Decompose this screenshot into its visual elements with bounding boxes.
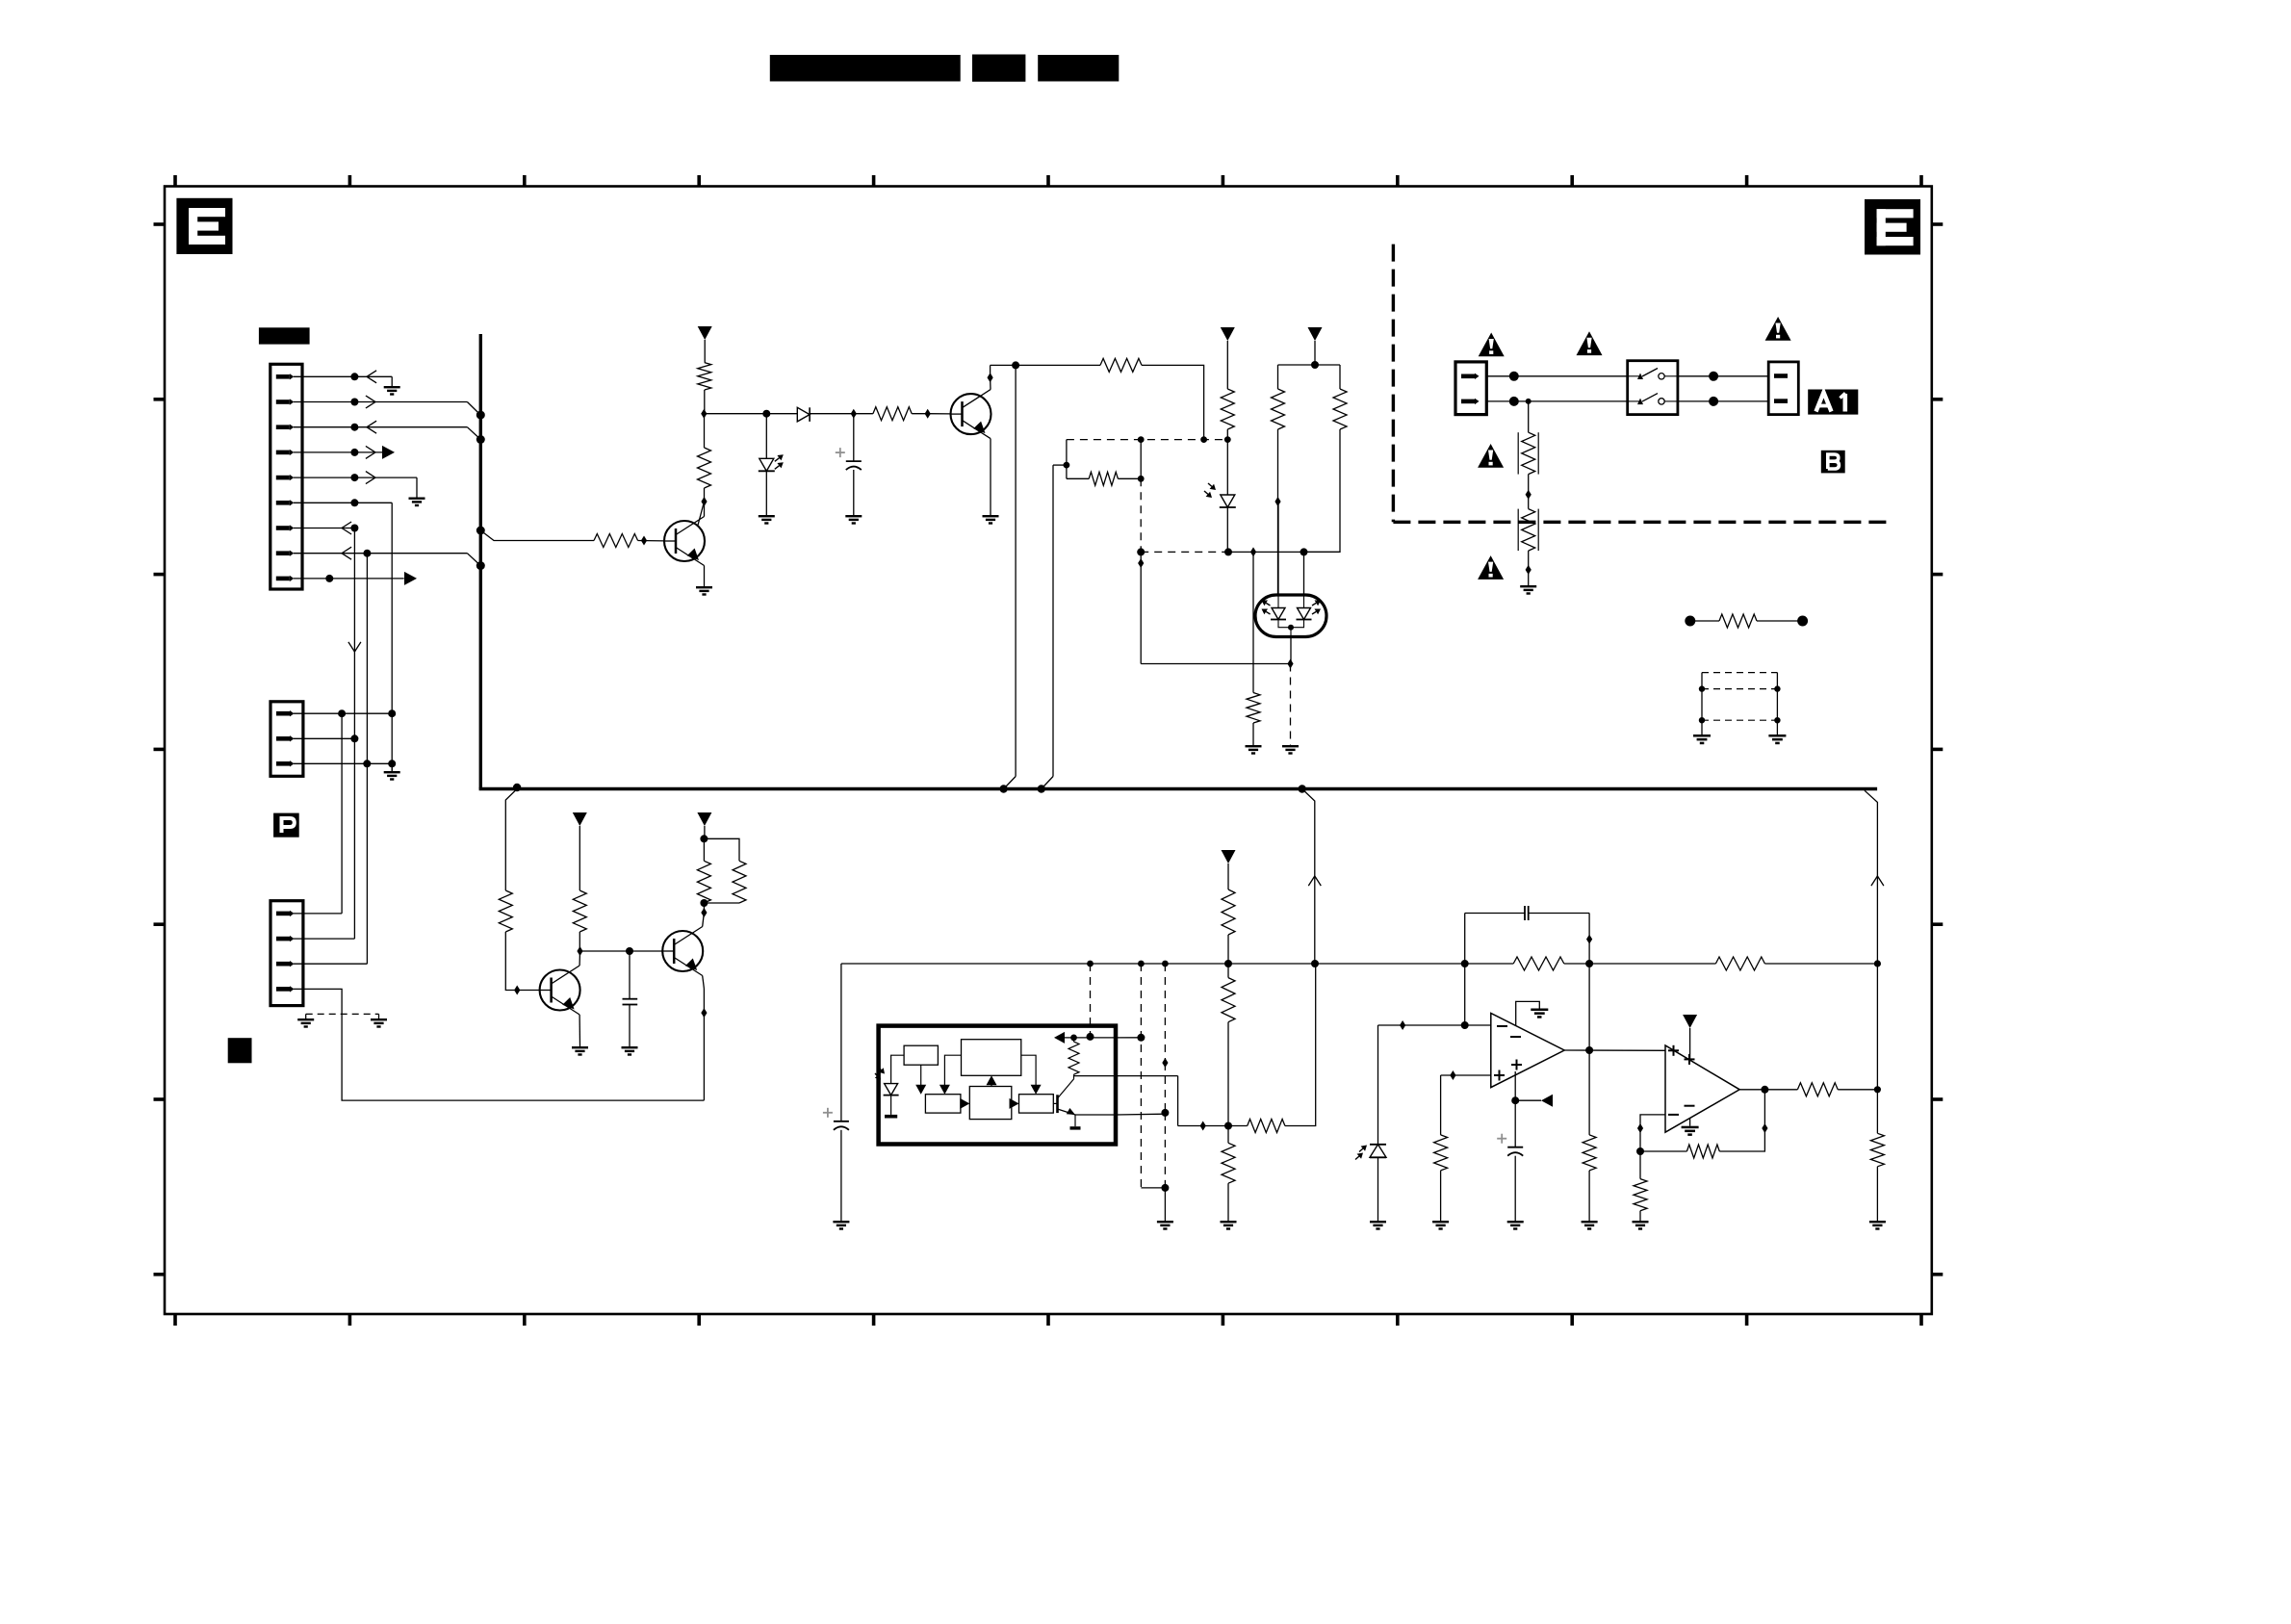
wire RT2-gnd [1528,551,1530,585]
U3A power stub [1516,1001,1540,1025]
U3B minus signs [1685,1105,1695,1107]
ground G-D7 [1370,1221,1386,1230]
node RN2 [1797,616,1808,627]
border frame [165,187,1932,1315]
node N2 [1012,361,1019,369]
supply arrow V7 [1683,1015,1697,1028]
wire D7-opto [1277,502,1279,595]
wire R23-gnd [1588,1171,1590,1221]
resistor R24 [1686,1145,1719,1158]
node N11 [1461,1021,1469,1029]
capacitor C2 [623,999,638,1005]
junction D15 [577,946,582,956]
arrow out (pin4) [366,446,375,458]
wire R11-Q2 [638,540,664,542]
U2 common lead [1278,620,1304,628]
node N17 [1761,1086,1768,1094]
resistor R17 [1222,978,1235,1022]
wire V3 stem [1314,341,1316,365]
wire U1 out3 [1074,1075,1178,1077]
capacitor C4 [1497,1134,1523,1156]
U1 res wires [1073,1038,1075,1042]
wire M2 down [1528,401,1530,432]
node J1 pin1 [350,373,358,380]
bus node B2 [1038,785,1045,792]
supply arrow V6 [1222,850,1236,864]
node N12 [1461,960,1469,967]
junction D13 [641,536,647,546]
node N13 [1585,960,1593,967]
warning triangle W5 [1478,555,1504,580]
node N5 [626,947,633,955]
wire V6 stem [1227,864,1229,889]
wire D6 bottom [1226,507,1228,552]
junction D7 [1274,497,1280,506]
node N4 [1311,361,1319,369]
switch S1 box [1628,361,1678,415]
dashed X1 drop [1090,964,1092,1037]
rail start corner [841,963,1465,965]
wire J2p1 to J3p1 [341,713,343,914]
wire RN1-R10 [1690,620,1719,622]
wire R22-gnd [1440,1171,1442,1221]
wire bus branch [505,789,517,891]
ground G-RT [1520,585,1536,595]
arrow in (pin3) [367,421,376,433]
resistor R10 [1719,614,1757,628]
junction D11 [1526,490,1532,500]
wire X3c-gnd [1164,1188,1166,1221]
resistor R9 [1247,693,1260,724]
resistor R27 [1870,1133,1884,1167]
wire J1 pin4 [294,451,382,453]
node H2c [1300,548,1308,555]
warning triangle W1 [1479,333,1505,357]
wire J1 pin6 [294,502,392,503]
junction X1 [1087,961,1094,967]
wire N16-R26 [1639,1151,1641,1179]
wire S1-J5 L [1678,375,1768,377]
node J1 pin7 [350,525,358,532]
wire J3 pin1 [294,913,342,915]
wire R16-N8 [1227,935,1229,964]
bus branch node [513,784,521,791]
label A 1 [1808,390,1858,415]
ground G-R9 [1246,745,1262,755]
node X3b [1161,1109,1169,1117]
resistor R3 [873,407,912,421]
IC U1 body [879,1026,1116,1145]
diode D2 [797,407,810,422]
arrow in (pin1) [367,371,376,383]
wire fb rail [1465,913,1525,915]
ground G-C2 [622,1046,638,1056]
photo arrows D6 [1208,483,1212,486]
resistor R7 [1272,389,1285,429]
dashed X3 drop3 [1164,1113,1166,1188]
wire J1 pin8 [294,553,467,554]
flow arrow up1 [1308,876,1321,886]
switch S1 pole A [1628,369,1678,380]
wire H1 left leg [1066,440,1068,479]
wire R24 right [1719,1090,1764,1151]
wire rail2 [1278,364,1341,366]
dashed block top [1702,672,1777,674]
transistor Q3 [540,970,580,1011]
LED D7 (photodiode) [1355,1145,1386,1160]
node J2 pin3 a [363,760,371,767]
isolation barrier vertical [1392,245,1395,523]
U2 pin right wire [1303,552,1305,595]
U1 photodiode [884,1084,899,1096]
node H2a [1137,548,1145,555]
wire R13-D15 [579,932,580,951]
ground G-Q2 [696,586,712,596]
junction D16 [701,908,707,917]
ground GL1 [297,1018,314,1028]
node J1 pin2 [350,399,358,406]
U1 fb wire [1064,1037,1116,1039]
U2 arrows left [1266,603,1270,606]
ground J2 [384,771,400,781]
dashed X3 drop [1164,964,1166,1063]
node J1 pin5 [350,474,358,481]
wire V5 stem [704,826,706,838]
wire R6 bot [1226,429,1228,440]
wire pin8 vertical [366,554,368,965]
wire V1 stem [704,340,706,363]
ground G-X3 [1157,1221,1173,1230]
bus junction pin2 [476,411,485,420]
wire J1 pin7 [294,528,354,529]
junction D1a [701,409,707,419]
isolation barrier horizontal [1393,521,1888,524]
node J2 pin1 a [338,709,346,717]
U2 arrows right [1312,603,1316,606]
wire fb vert [1464,914,1466,1026]
U1 pd wires [891,1055,905,1083]
flow arrow on pin7 wire [348,642,361,652]
junction D9 [1138,558,1144,568]
wire mains N [1486,400,1627,402]
wire J3 pin2 [294,938,354,940]
wire R10-RN2 [1757,620,1803,622]
ground G-D5 [759,515,775,525]
resistor R5 [1089,472,1118,485]
node H2b [1224,548,1232,555]
connector J2 (3-pin) [270,702,303,777]
U1 block B [962,1040,1021,1076]
arrow in (pin8) [342,547,351,559]
resistor R12 [499,890,512,932]
wire N1-D5 [765,414,767,459]
junction D4 [925,409,931,419]
wire R27-gnd [1876,1167,1878,1221]
resistor R25 [1797,1083,1838,1096]
ground G-DB1 [1693,735,1711,744]
resistor R2 [698,448,711,488]
junction X4 [1874,960,1881,967]
wire R17-N10 [1227,1022,1229,1126]
switch S1 pole B [1628,394,1678,405]
resistor R4 [1100,358,1142,372]
wire J1 pin3 [294,426,467,428]
ground G-R18 [1221,1221,1237,1230]
arrow out (pin2) [366,396,375,408]
resistor R6 [1221,389,1234,429]
U1 res internal [1068,1042,1079,1074]
U2 led left [1271,608,1286,620]
node X1b [1087,1033,1094,1041]
arrow out (pin5) [366,472,375,484]
bus tap right node [1299,785,1306,792]
junction D3 [851,409,857,419]
wire N5-C2 [629,951,631,999]
bus node B1 [999,785,1007,792]
ground G-R23 [1582,1221,1598,1230]
resistor R1 [698,363,711,390]
resistor R11 [594,534,638,548]
connector J4 (mains) [1455,362,1486,415]
node J1 pin3 [350,424,358,431]
wire N15 down [1514,1100,1516,1147]
junction D23 [1637,1123,1643,1133]
wire R5 left [1067,477,1089,479]
wire bus tap [480,530,594,541]
node N15 [1511,1096,1519,1104]
resistor R26 [1634,1179,1647,1211]
op-amp U3B [1665,1045,1739,1132]
bus junction pin3 [476,435,485,444]
junction X5 [1874,1086,1881,1093]
wire R5 right [1118,477,1141,479]
ground J1 pin5 [409,498,425,507]
dashed block mid1 [1702,688,1777,690]
node N1 [762,410,770,418]
capacitor C5 [1524,906,1526,920]
ground G-U3A [1531,1009,1548,1018]
resistor R22 [1434,1135,1448,1171]
wire minus in [1378,1024,1491,1026]
wire plus col [1440,1075,1442,1135]
dashed X2 drop [1140,964,1142,1038]
wire C2-gnd [629,1005,631,1047]
wire bottom rail [1141,663,1290,665]
wire Q2 emitter [704,566,706,587]
wire J1 pin9 [294,578,404,580]
U1 D-B arrow [991,1084,992,1087]
junction D10 [1287,659,1293,669]
node J1 pin8 [363,550,371,557]
ground G-U3B [1682,1126,1699,1136]
resistor R14 [697,861,710,903]
wire R6-D6 [1226,440,1228,495]
dashed block left leg [1701,673,1703,735]
dashed X2 drop2 [1140,1044,1142,1188]
wire Q1 emitter down [990,439,991,515]
wire V7 stem [1689,1028,1691,1060]
capacitor C1 (polarized) [836,448,862,470]
node J1 pin6 [350,499,358,506]
wire N10-R18 [1227,1126,1229,1144]
wire N8-R17 [1227,964,1229,978]
U1 C-D arrow [961,1102,963,1104]
U1 A-C arrow [920,1065,922,1085]
U1 D-E arrow [1012,1102,1014,1104]
wire R24 left [1640,1150,1686,1152]
wire J2 pin3 [294,762,392,764]
ground GL2 [371,1018,387,1028]
wire bus to N9 [1302,789,1315,965]
U1 emitter rail [1075,1114,1116,1116]
wire U1 out2 [1116,1113,1165,1116]
junction D5b [988,373,993,382]
dashed link H1 [1067,439,1227,441]
wire rail ext [1564,963,1589,965]
node N16 [1636,1147,1644,1155]
wire cap column [840,964,842,1121]
resistor R16 [1222,889,1235,935]
wire Q3 emitter [579,1015,580,1046]
wire N7-D16 [703,903,705,913]
ground G-C1 [845,515,862,525]
op-amp U3A [1491,1014,1564,1088]
wire J1 pin5 [294,477,417,478]
wire R8 bottom [1304,429,1341,552]
U2 pin left wire [1277,502,1279,595]
junction D22 [1450,1070,1455,1080]
zone label E (right) [1865,199,1920,255]
ground G-DB2 [1768,735,1786,744]
wire J1 pin1 [294,375,392,377]
node M3 [1709,372,1718,381]
wire R7 bottom [1277,429,1279,502]
dashed V2 [1290,664,1292,746]
node N9 [1311,960,1319,967]
connector J5 (A1) [1768,362,1798,415]
label B [1821,451,1845,474]
wire RT1-RT2 [1528,475,1530,509]
wire R20 left [1465,963,1514,965]
transistor Q4 [662,931,703,971]
zone label E (left) [176,198,232,254]
U1 block C [925,1095,961,1113]
title text block 1 [770,55,961,82]
U3B plus signs [1668,1045,1695,1065]
node N14 [1585,1046,1593,1054]
optocoupler U2 body [1255,595,1326,637]
supply arrow V2 [1221,327,1235,341]
wire N14-R23 [1588,1050,1590,1135]
title text block 3 [1038,55,1119,82]
connector designator label (redacted) [259,327,310,344]
node N3 [1064,462,1070,469]
wire mains L [1486,375,1627,377]
wire H1a-R5r [1140,440,1142,479]
wire Q1 collector [698,502,705,526]
ground G-R26 [1633,1221,1649,1230]
LED D5 [759,454,784,471]
node M1 [1509,372,1519,381]
U1 block A [904,1045,938,1065]
junction D1b [701,497,707,506]
wire R8 top [1339,365,1341,389]
U2 top pins [1277,595,1279,608]
dashed X3 drop2 [1164,1063,1166,1113]
dashed block mid2 [1702,719,1777,721]
frame tick marks [173,175,177,187]
U1 block E [1019,1095,1054,1113]
signal arrow (pin4) [382,446,395,459]
wire J2 pin2 [294,737,354,739]
node R5r [1138,476,1145,482]
title text block 2 [972,55,1025,82]
black square marker [228,1038,252,1063]
node N7 [700,899,708,907]
connector J3 (4-pin) [270,901,303,1006]
junction D14 [514,986,520,995]
dashed V1 [1140,478,1142,552]
wire X2-X3 link [1141,1187,1165,1189]
junction X3 [1162,961,1169,967]
arrow in (pin7) [342,522,351,534]
wire J3 pin4 run [294,989,704,1100]
wire N2 to bus [1015,365,1017,776]
capacitor C3 [823,1108,849,1130]
wire D8 down [1252,552,1254,692]
wire U1 out1 [1116,1037,1141,1039]
U1 fb node [1070,1035,1077,1042]
junction D18 [1162,1058,1168,1068]
U3A ref stub [1514,1071,1516,1100]
wire R2 bottom [704,488,706,502]
signal arrow (pin9) [404,572,417,585]
wire R1-J [704,390,706,414]
wire Q1 collector up [990,377,991,389]
wire minus stub [1640,1115,1665,1151]
node H1b [1200,436,1207,443]
wire J3 pin3 [294,963,367,965]
node N6 [700,835,708,842]
U2 led right [1297,608,1312,620]
warning triangle W4 [1478,444,1504,468]
wire Q2 collector [704,502,706,517]
label P [273,813,299,838]
wire R4 right [1142,365,1204,439]
node J2 pin3 b [388,760,396,767]
wire Q4 collector [703,913,705,927]
node M2 [1509,397,1519,406]
warning triangle W2 [1577,331,1603,355]
resistor R21 [1715,957,1764,970]
node H1c [1224,436,1231,443]
junction D19 [1200,1121,1206,1131]
wire N15 arrow stub [1515,1099,1541,1101]
wire Q4 emitter [703,976,705,990]
wire zener col [1377,1025,1379,1145]
resistor R18 [1222,1143,1235,1183]
resistor R13 [573,890,586,932]
wire to Q1 base [928,413,951,415]
U3A plus signs [1494,1060,1522,1081]
resistor R8 [1333,389,1347,429]
node N8 [1224,960,1232,967]
thermistor RT2 [1518,509,1538,552]
thermistor RT1 [1518,432,1538,474]
wire D2-D3 [810,413,854,415]
wire C4-gnd [1514,1156,1516,1221]
resistor R15 (parallel) [704,838,746,903]
